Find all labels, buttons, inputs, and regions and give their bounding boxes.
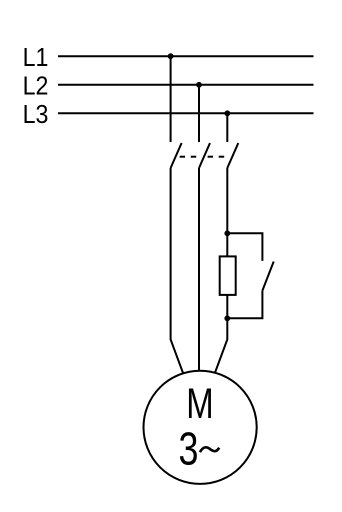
bypass switch blade bbox=[262, 262, 273, 291]
switch pole 1 blade bbox=[171, 143, 182, 168]
svg-text:L3: L3 bbox=[23, 99, 49, 129]
mechanical linkage dashed line bbox=[180, 156, 225, 158]
switch pole 2 blade bbox=[199, 143, 210, 168]
wire drop from L3 to switch pole 3 bbox=[226, 113, 228, 142]
resistor bbox=[220, 256, 236, 295]
bypass branch top wire bbox=[227, 233, 262, 261]
wire pole 3 to resistor bbox=[226, 168, 228, 257]
switch pole 3 blade bbox=[227, 143, 238, 168]
net L3 bus line bbox=[58, 112, 314, 114]
junction dot on L2 bbox=[196, 82, 202, 88]
svg-text:3: 3 bbox=[179, 423, 199, 474]
junction dot bypass bottom bbox=[224, 315, 230, 321]
svg-text:M: M bbox=[186, 380, 213, 428]
svg-text:L2: L2 bbox=[23, 71, 49, 101]
junction dot bypass top bbox=[224, 230, 230, 236]
motor M circle bbox=[144, 371, 257, 484]
wire drop from L2 to switch pole 2 bbox=[198, 85, 200, 142]
wire pole 2 to motor bbox=[198, 168, 200, 376]
net L1 bus line bbox=[58, 55, 314, 57]
svg-text:L1: L1 bbox=[23, 42, 49, 72]
junction dot on L1 bbox=[168, 53, 174, 59]
wire resistor to motor bbox=[213, 294, 227, 377]
bypass branch bottom wire bbox=[227, 291, 262, 319]
motor label tilde bbox=[200, 447, 219, 452]
net L2 bus line bbox=[58, 84, 314, 86]
wire drop from L1 to switch pole 1 bbox=[170, 56, 172, 142]
junction dot on L3 bbox=[224, 110, 230, 116]
wire pole 1 to motor bbox=[171, 168, 185, 377]
